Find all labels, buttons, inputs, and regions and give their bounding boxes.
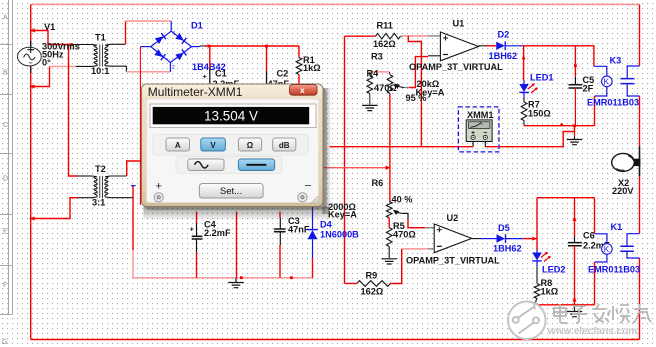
svg-text:K: K [604, 245, 610, 254]
wire bottom border [31, 339, 640, 341]
wire R7 bottom rail y=125.7 [524, 125, 595, 127]
wire T1 secondary top to bridge top [111, 43, 126, 45]
svg-text:162Ω: 162Ω [373, 39, 396, 49]
svg-text:V1: V1 [44, 22, 55, 32]
svg-text:150Ω: 150Ω [528, 109, 551, 119]
wire U2 output [472, 238, 481, 240]
wire R11 feed [345, 35, 376, 37]
wire stub blue tick left of dialog [131, 185, 136, 187]
resistor R4 [369, 72, 371, 76]
svg-text:3:1: 3:1 [92, 198, 105, 208]
potentiometer R3 [388, 72, 391, 75]
watermark logo elecfans [508, 302, 546, 340]
svg-text:1BH62: 1BH62 [489, 51, 518, 61]
svg-text:R9: R9 [366, 271, 378, 281]
svg-text:1BH62: 1BH62 [493, 244, 522, 254]
wire U1 output [479, 45, 487, 47]
svg-text:T1: T1 [95, 33, 106, 43]
capacitor C5 [574, 46, 576, 77]
bridge rectifier D1 [140, 21, 199, 72]
wire right border mid (between K3 contact and lamp) [639, 96, 641, 147]
junction dot C2 [265, 45, 268, 48]
ground below R5 [381, 259, 397, 264]
relay contact K3 [621, 66, 640, 96]
wire ground net to XMM1 minus [485, 126, 574, 147]
svg-text:2F: 2F [583, 84, 594, 94]
capacitor C4 [196, 212, 198, 224]
wire x=236.5 with ground on bottom rail [236, 212, 238, 278]
wire V1 bottom jog to T1 primary bottom [31, 66, 50, 86]
wire K3 coil bottom to ground net [594, 96, 596, 126]
svg-text:+: + [203, 72, 208, 81]
svg-text:D4: D4 [320, 220, 333, 230]
svg-text:1kΩ: 1kΩ [541, 287, 559, 297]
resistor R5 [386, 228, 392, 247]
wire from behind dialog joining XMM1 wire at y=146.7 [330, 146, 422, 148]
LED LED2 [532, 250, 551, 266]
wire R3 bottom to junction [389, 94, 391, 95]
resistor R7 [523, 98, 525, 102]
svg-text:Set...: Set... [220, 186, 242, 197]
junction dots on bottom rail [240, 276, 243, 279]
relay coil K3 [594, 66, 612, 96]
resistor R1 [298, 46, 300, 58]
resistor R9 [357, 281, 391, 287]
relay coil K1 [595, 198, 613, 262]
svg-text:Ω: Ω [247, 141, 254, 150]
svg-text:95 %: 95 % [406, 93, 427, 103]
junction arrow at (562,125.7) [559, 123, 564, 126]
wire T2 primary bottom to left rail [78, 197, 92, 199]
svg-text:LED1: LED1 [530, 73, 554, 83]
wire mid rail x=344.5 [344, 36, 346, 283]
svg-text:470Ω: 470Ω [374, 83, 397, 93]
wire bridge minus down behind dialog [139, 47, 141, 205]
svg-text:1kΩ: 1kΩ [303, 63, 321, 73]
svg-text:B: B [3, 70, 8, 77]
svg-text:R3: R3 [371, 52, 383, 62]
svg-text:F: F [3, 282, 7, 289]
diode D5 [497, 234, 506, 243]
svg-text:D2: D2 [498, 30, 510, 40]
ground bottom right [574, 305, 576, 311]
junction arrow at (30.7,86.5) [29, 85, 35, 89]
svg-text:C1: C1 [215, 69, 227, 79]
junction arrow at (574.5,298.5) [573, 296, 577, 301]
wire T2 secondary bottom [111, 197, 134, 199]
lamp X2 [612, 147, 641, 177]
svg-text:R11: R11 [377, 21, 393, 31]
wire divider top [370, 71, 389, 73]
diode D2 [496, 41, 505, 50]
diode D4 [312, 206, 314, 230]
junction arrow at (522.4,45.8) [522, 55, 526, 60]
resistor R11 [376, 33, 401, 39]
svg-text:162Ω: 162Ω [361, 287, 384, 297]
svg-text:dB: dB [279, 141, 290, 150]
svg-text:V: V [210, 141, 216, 150]
ground (C5/R7 net) [574, 132, 576, 137]
capacitor C2 [266, 46, 268, 71]
svg-text:A: A [175, 141, 181, 150]
svg-text:E: E [3, 229, 8, 236]
wire U2 minus feedback to R9 [428, 248, 434, 250]
op-amp U1 [440, 32, 478, 61]
wire D5 out [506, 238, 524, 240]
svg-text:2: 2 [172, 65, 175, 71]
capacitor C1 [209, 46, 211, 68]
wire T2 secondary top [111, 175, 127, 177]
svg-text:10:1: 10:1 [91, 66, 109, 76]
svg-text:C2: C2 [277, 69, 289, 79]
wire top rail second channel y=197.7 [537, 197, 595, 199]
svg-text:Multimeter-XMM1: Multimeter-XMM1 [148, 85, 243, 99]
svg-text:OPAMP_3T_VIRTUAL: OPAMP_3T_VIRTUAL [406, 256, 500, 266]
wire tap to XMM1 plus terminal [408, 36, 472, 147]
watermark chinese characters [554, 304, 651, 323]
wire down to LED2 [536, 198, 538, 250]
ground below R4 [362, 105, 378, 110]
multimeter icon XMM1 [466, 120, 492, 147]
junction arrow at (68.5,44.5) [67, 43, 72, 47]
svg-text:LED2: LED2 [542, 265, 566, 275]
svg-text:K3: K3 [610, 56, 622, 66]
R6 wiper arrow [393, 210, 399, 215]
svg-text:U2: U2 [447, 213, 459, 223]
svg-text:47nF: 47nF [288, 225, 310, 235]
svg-text:2.2mF: 2.2mF [204, 228, 231, 238]
svg-text:K1: K1 [611, 222, 623, 232]
resistor R8 [536, 266, 538, 284]
svg-text:13.504 V: 13.504 V [204, 108, 258, 123]
wire V1 top jog to T1 primary top [31, 31, 70, 45]
svg-text:–: – [305, 180, 312, 192]
wire left rail x=30.7 (V1 top segment) [30, 5, 32, 46]
svg-text:x: x [300, 85, 305, 95]
LED LED1 [519, 81, 538, 99]
junction arrow at (30.7,30.5) [30, 29, 36, 33]
relay contact K1 [620, 234, 639, 258]
junction arrow at (535,238.6) [532, 237, 537, 241]
svg-text:Key=A: Key=A [328, 210, 357, 220]
wire R6 to R5 [388, 218, 390, 228]
junction arrow at (574.5,217.5) [573, 216, 577, 221]
svg-text:T2: T2 [95, 164, 106, 174]
svg-text:1N6000B: 1N6000B [320, 230, 359, 240]
svg-text:www.elecfans.com: www.elecfans.com [547, 326, 637, 337]
svg-text:EMR011B03: EMR011B03 [588, 265, 640, 275]
wire bridge plus bus y=46 [200, 45, 206, 47]
ground on bottom rail [235, 278, 237, 282]
multimeter dialog XMM1 [142, 84, 332, 221]
wire right border lower [639, 258, 641, 340]
wire right border upper [639, 5, 641, 67]
wire R9 left to mid rail [345, 283, 357, 285]
junction dot at (574.5,125.7) [573, 124, 576, 127]
svg-text:D: D [3, 176, 8, 183]
wire R11 to U1 plus input [401, 35, 404, 37]
svg-text:XMM1: XMM1 [467, 110, 494, 120]
svg-text:0°: 0° [42, 58, 51, 68]
sheet ruler strip left [0, 0, 13, 315]
potentiometer R6 [386, 202, 392, 218]
wire T1 top net down to T2 primary top (x=68.5) [69, 45, 78, 177]
wire top border (V1 top net, highlighted) [31, 4, 640, 6]
svg-text:470Ω: 470Ω [393, 230, 416, 240]
wire K1 coil bottom to ground [594, 262, 596, 305]
svg-text:R4: R4 [367, 69, 380, 79]
transformer T2 [92, 176, 111, 198]
junction arrow at (30.7,218.5) [29, 217, 35, 221]
wire bottom rail y=278 [197, 277, 313, 279]
svg-text:R6: R6 [372, 178, 384, 188]
svg-text:C: C [3, 122, 8, 129]
svg-text:D5: D5 [498, 223, 510, 233]
svg-text:+: + [156, 181, 162, 193]
svg-text:D1: D1 [191, 21, 203, 31]
junction arrow at (387.5,167.7) [386, 166, 391, 170]
svg-text:+: + [190, 224, 195, 233]
junction dot C1 [208, 45, 211, 48]
wire R3 wiper to U1 minus [404, 87, 409, 89]
svg-text:A: A [3, 15, 8, 22]
transformer T1 [92, 44, 111, 66]
svg-text:OPAMP_3T_VIRTUAL: OPAMP_3T_VIRTUAL [409, 62, 503, 72]
wire right border lamp to K1 contact [639, 176, 641, 233]
wire left rail x=30.7 (V1 bottom down to bottom border) [30, 67, 32, 340]
svg-text:40 %: 40 % [392, 195, 413, 205]
svg-text:EMR011B03: EMR011B03 [587, 98, 639, 108]
op-amp U2 [434, 224, 472, 253]
svg-text:1: 1 [173, 31, 176, 37]
capacitor C3 [279, 212, 281, 218]
svg-text:C6: C6 [583, 231, 595, 241]
wire to LED1 [523, 46, 525, 81]
AC source V1 [18, 41, 42, 73]
selection box XMM1 [458, 107, 499, 152]
wire R6 wiper to U2 plus [403, 213, 408, 219]
svg-text:220V: 220V [612, 186, 634, 196]
wire from behind dialog to junction y=167.7 [323, 167, 390, 169]
capacitor C6 [574, 198, 576, 237]
wire T1 secondary bottom to bridge bottom [111, 66, 127, 72]
svg-text:U1: U1 [453, 19, 465, 29]
svg-text:K: K [604, 77, 610, 86]
wire D2 out [505, 45, 522, 47]
svg-text:G: G [2, 339, 7, 346]
R3 wiper arrow [394, 83, 400, 88]
